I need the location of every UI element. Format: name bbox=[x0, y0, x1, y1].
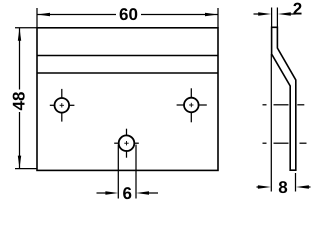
dimension 60 extension line right bbox=[217, 8, 219, 28]
hole H1 centerlines bbox=[50, 89, 75, 122]
hole H1 (left) bbox=[55, 98, 70, 113]
dimension 6 line with outside arrows bbox=[97, 192, 159, 194]
hole H2 (right) bbox=[184, 98, 199, 113]
front view plate outline bbox=[37, 28, 218, 171]
dimension 60 extension line left bbox=[36, 8, 38, 28]
dimension 60 line bbox=[37, 14, 218, 16]
dimension 8 extension line left bbox=[270, 54, 272, 192]
dimension 6 extension lines bbox=[118, 145, 136, 199]
dimension 48 extension line bottom bbox=[15, 168, 37, 170]
bend line upper (front view) bbox=[37, 55, 218, 57]
dimension 2 extension lines bbox=[272, 8, 278, 28]
dimension 48 extension line top bbox=[15, 27, 37, 29]
hole H2 centerlines bbox=[177, 88, 207, 122]
dimension 48 line bbox=[19, 28, 21, 169]
svg-text:8: 8 bbox=[278, 178, 287, 197]
hole H3 centerlines bbox=[114, 129, 139, 158]
dimension 8 extension line right bbox=[295, 173, 297, 192]
bend line lower (front view) bbox=[37, 72, 218, 74]
side view profile outline bbox=[272, 27, 296, 170]
dimension 8 line with outside arrows bbox=[257, 186, 311, 188]
side view centerline upper holes bbox=[263, 104, 305, 106]
dimension 2 line with outside arrows bbox=[254, 13, 296, 15]
svg-text:2: 2 bbox=[293, 0, 302, 18]
hole H3 (bottom, dia 6) bbox=[119, 135, 135, 151]
svg-text:60: 60 bbox=[119, 5, 138, 24]
dimension 48 arrowheads bbox=[18, 28, 21, 169]
svg-text:6: 6 bbox=[122, 184, 131, 200]
side view centerline bottom hole bbox=[263, 142, 307, 144]
dimension 60 arrowheads bbox=[37, 13, 218, 16]
svg-text:48: 48 bbox=[10, 92, 29, 111]
